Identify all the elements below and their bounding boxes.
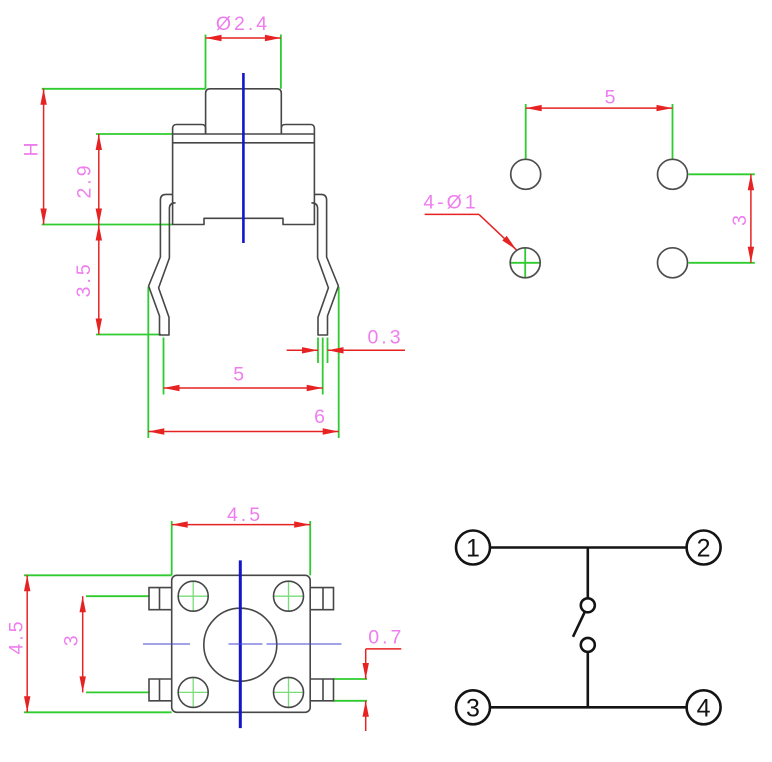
svg-text:3.5: 3.5 (73, 261, 95, 297)
svg-text:3: 3 (61, 632, 83, 646)
svg-text:4-Ø1: 4-Ø1 (423, 192, 478, 214)
svg-text:3: 3 (466, 694, 480, 722)
svg-text:5: 5 (605, 87, 619, 109)
svg-text:3: 3 (729, 212, 751, 226)
svg-text:4.5: 4.5 (6, 618, 28, 654)
svg-text:0.7: 0.7 (368, 627, 404, 649)
svg-text:Ø2.4: Ø2.4 (216, 13, 270, 35)
svg-text:4: 4 (697, 694, 711, 722)
svg-text:2: 2 (697, 535, 711, 563)
svg-text:0.3: 0.3 (367, 327, 403, 349)
svg-text:6: 6 (314, 406, 328, 428)
svg-text:5: 5 (233, 364, 247, 386)
svg-text:2.9: 2.9 (74, 162, 96, 198)
svg-text:4.5: 4.5 (227, 504, 263, 526)
svg-text:H: H (21, 139, 43, 156)
svg-text:1: 1 (466, 535, 480, 563)
